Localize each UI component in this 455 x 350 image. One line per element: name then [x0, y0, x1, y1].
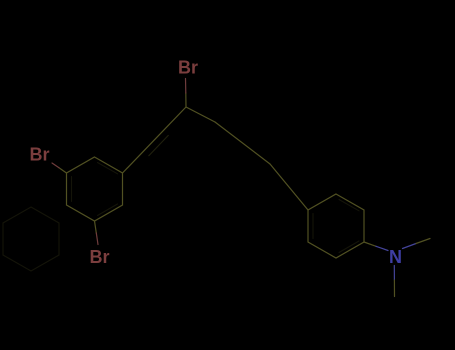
bond C-Br left olive half — [59, 168, 67, 173]
alkyne run A: ring UR to C* — [123, 107, 187, 173]
aromatic inner bonds left ring — [72, 163, 118, 216]
svg-text:Br: Br — [90, 247, 110, 267]
N-CH3 down olive half — [393, 280, 395, 297]
bond C-Br bottom olive half — [95, 221, 97, 233]
N-CH3 down blue half — [393, 266, 395, 281]
bond ring-N olive half — [364, 242, 376, 246]
faint benzene (solvate) bottom left — [3, 207, 59, 271]
benzene ring left (3,5-dibromophenyl) — [67, 157, 123, 221]
bond C-Br bottom red half — [96, 233, 98, 245]
chain B segment 1 — [215, 122, 270, 164]
bond C-Br left red half — [52, 163, 59, 168]
bond C* to chain — [186, 107, 215, 122]
N-CH3 upper right olive half — [416, 239, 430, 244]
N-CH3 upper right blue half — [403, 244, 417, 249]
svg-text:Br: Br — [178, 58, 198, 78]
bond C*-Br top red half — [185, 79, 187, 94]
chain B segment 2 — [270, 164, 308, 210]
svg-text:N: N — [389, 247, 402, 267]
bond ring-N blue half — [376, 246, 388, 250]
aromatic inner bonds right ring — [313, 200, 359, 253]
benzene ring right (aniline) — [308, 194, 364, 258]
triple bond parallel line — [149, 135, 169, 155]
bond C*-Br top olive half — [185, 93, 187, 107]
svg-text:Br: Br — [30, 145, 50, 165]
